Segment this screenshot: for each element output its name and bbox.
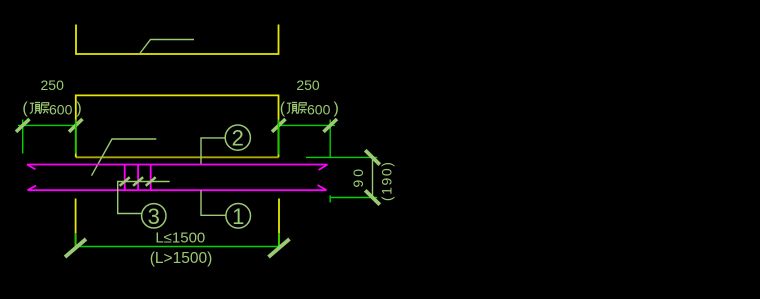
- svg-text:): ): [76, 100, 81, 117]
- glyph 层 left: [40, 103, 49, 114]
- svg-text:1: 1: [232, 204, 244, 229]
- dimension line left 250: [18, 124, 76, 126]
- slab bottom line (magenta) with end arrows: [28, 185, 327, 190]
- svg-text:3: 3: [148, 204, 160, 229]
- svg-text:(: (: [280, 100, 286, 117]
- svg-text:L≤1500: L≤1500: [155, 230, 205, 247]
- svg-text:250: 250: [296, 77, 320, 93]
- tick 90 top: [365, 150, 380, 164]
- wall U-shape top section (yellow): [76, 25, 279, 55]
- label (顶层600) left: [22, 100, 81, 117]
- slab top line (magenta) with end arrows: [27, 165, 328, 171]
- rebar step line in top section: [139, 40, 194, 55]
- svg-text:2: 2: [232, 126, 244, 151]
- rebar step line in main section: [92, 139, 157, 176]
- leader line to callout 1: [201, 190, 226, 215]
- extension line left: [22, 120, 24, 154]
- dimension line right 250: [279, 124, 335, 126]
- slab opening edge 2 (magenta vertical): [137, 165, 139, 191]
- wall rectangle main section bottom edge (olive yellow): [76, 156, 279, 158]
- arrow tick 2: [133, 177, 143, 186]
- extension below right (green): [278, 233, 280, 250]
- tick left dim inner: [69, 119, 83, 132]
- glyph 层 right: [298, 103, 307, 114]
- dimension line bottom L: [76, 246, 279, 248]
- callout circle 2: [225, 125, 250, 150]
- tick right dim inner: [272, 119, 286, 132]
- svg-text:600: 600: [307, 102, 331, 118]
- slab top extension line right (green): [306, 156, 377, 158]
- arrow tick 3: [146, 177, 156, 186]
- svg-text:250: 250: [41, 77, 65, 93]
- slab opening edge 1 (magenta vertical): [124, 165, 126, 191]
- extension overlay on box right edge (green): [278, 120, 280, 155]
- extension below left (green): [75, 233, 77, 250]
- slab opening edge 3 (magenta vertical): [150, 165, 152, 191]
- extension line right: [329, 120, 331, 158]
- tick bottom right: [269, 239, 290, 257]
- wall edge below slab right (yellow): [278, 199, 280, 247]
- glyph 顶 right: [287, 103, 297, 114]
- callout circle 3: [142, 204, 166, 228]
- tick bottom left: [65, 239, 86, 257]
- tick right dim outer: [324, 119, 338, 132]
- glyph 顶 left: [30, 103, 40, 114]
- svg-text:90: 90: [350, 166, 366, 188]
- slab bottom extension line right (green): [331, 197, 377, 199]
- svg-text:(L>1500): (L>1500): [150, 250, 212, 267]
- tick left dim outer: [16, 119, 30, 132]
- extension overlay on box left edge (green): [75, 120, 77, 154]
- svg-text:(: (: [22, 100, 28, 117]
- tick 90 bottom: [365, 190, 380, 204]
- dimension line right vertical 90: [372, 157, 374, 197]
- rebar pointer line with arrow ticks: [118, 182, 170, 214]
- arrow tick 1: [120, 177, 130, 186]
- svg-text:(190): (190): [379, 160, 395, 201]
- leader line to callout 2: [201, 138, 226, 164]
- svg-text:): ): [334, 100, 339, 117]
- wall rectangle main section (yellow): [76, 95, 279, 157]
- label (顶层600) right: [280, 100, 339, 117]
- wall edge below slab left (yellow): [75, 199, 77, 247]
- svg-text:600: 600: [49, 102, 73, 118]
- callout circle 1: [226, 204, 251, 229]
- stub extension vertical (green): [329, 195, 331, 202]
